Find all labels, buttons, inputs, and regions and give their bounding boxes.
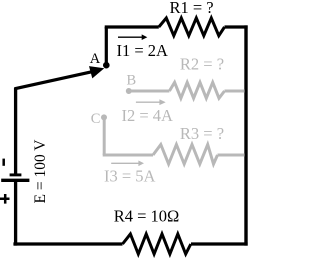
svg-text:A: A — [90, 51, 101, 67]
wire: left side upper (battery - up to diagonal corner) — [14, 88, 17, 175]
current arrow I3 — [111, 162, 139, 164]
wire: node A vertical to top-left corner — [105, 27, 108, 66]
svg-text:C: C — [91, 111, 101, 127]
label: battery minus sign — [2, 159, 5, 166]
wire: diagonal from left corner to node A — [14, 70, 99, 89]
svg-text:R3 = ?: R3 = ? — [180, 124, 224, 143]
resistor R2 — [169, 82, 224, 98]
wire: right side — [244, 25, 247, 245]
wire: node C down to R3 row — [103, 117, 106, 155]
resistor R3 — [153, 145, 218, 165]
wire: resistor R3 to right side — [218, 154, 245, 157]
wire: bottom side right segment — [191, 242, 248, 245]
svg-text:I1 = 2A: I1 = 2A — [117, 41, 169, 60]
label: battery plus sign — [0, 194, 10, 204]
node A junction dot — [103, 62, 110, 69]
battery E long plate (positive) — [1, 179, 29, 182]
current arrow I1 — [118, 36, 142, 38]
svg-text:R4 = 10Ω: R4 = 10Ω — [114, 207, 180, 226]
wire: top side left segment — [105, 25, 159, 28]
node B junction dot — [126, 88, 132, 94]
resistor R1 — [159, 18, 225, 36]
resistor R4 — [123, 234, 191, 254]
wire: left side lower (battery + to bottom corner) — [14, 182, 17, 246]
wire: bottom side left segment — [13, 242, 122, 245]
svg-text:I2 = 4A: I2 = 4A — [122, 106, 174, 125]
svg-text:I3 = 5A: I3 = 5A — [104, 166, 156, 185]
wire: C corner to resistor R3 — [103, 154, 153, 157]
battery E short plate (negative) — [10, 173, 22, 176]
wire: resistor R2 to right side — [225, 90, 245, 93]
wire: top side right segment — [225, 25, 248, 28]
svg-text:E = 100 V: E = 100 V — [32, 139, 49, 204]
node C junction dot — [101, 114, 107, 120]
current arrow I2 — [136, 101, 161, 103]
wire: node B to resistor R2 — [129, 90, 170, 93]
svg-text:R1 = ?: R1 = ? — [170, 0, 214, 17]
arrowhead on diagonal wire pointing at node A — [89, 66, 104, 78]
svg-text:R2 = ?: R2 = ? — [180, 54, 224, 73]
svg-text:B: B — [127, 72, 137, 88]
